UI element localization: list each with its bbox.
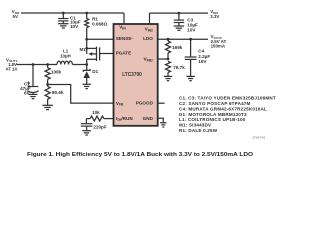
svg-text:220pF: 220pF (93, 124, 106, 129)
svg-text:GND: GND (143, 116, 154, 121)
diode D1 MBRM120T3 (Schottky) (83, 63, 99, 89)
svg-text:LTC3700: LTC3700 (122, 72, 142, 78)
svg-text:169k: 169k (172, 45, 183, 50)
svg-text:16V: 16V (198, 59, 207, 64)
svg-text:6V: 6V (24, 90, 31, 95)
wire: VIN1 top rail (21, 12, 124, 14)
wire: VOUT1 rail (17, 64, 58, 66)
svg-text:100k: 100k (51, 69, 62, 74)
svg-text:10V: 10V (70, 24, 79, 29)
svg-text:Figure 1. High Efficiency 5V t: Figure 1. High Efficiency 5V to 1.8V/1A … (27, 152, 254, 158)
svg-text:10V: 10V (187, 27, 196, 32)
svg-text:3.3V: 3.3V (210, 14, 219, 19)
resistor 100k (VFB divider top) (45, 63, 61, 84)
svg-text:AT 1A: AT 1A (6, 67, 18, 72)
inductor L1 10µH (57, 48, 72, 64)
resistor 78.7k (LDO divider bottom) (164, 61, 185, 80)
resistor 169k (LDO divider top) (166, 38, 183, 59)
wire: LDO output rail (158, 38, 208, 40)
svg-text:L1: COILTRONICS UP1B-100: L1: COILTRONICS UP1B-100 (179, 117, 246, 122)
capacitor C1 (58, 12, 81, 29)
notes: component table (179, 95, 276, 133)
svg-text:C1, C3: TAIYO YUDEN EMK325BJ10: C1, C3: TAIYO YUDEN EMK325BJ106MNT (179, 95, 276, 100)
svg-text:LDO: LDO (143, 36, 153, 41)
svg-text:5V: 5V (13, 14, 18, 19)
node VFB junction (46, 83, 49, 86)
resistor R1 0.068Ω (85, 12, 108, 40)
svg-text:M1: M1 (80, 47, 87, 52)
resistor 10k (ITH compensation) (86, 110, 113, 121)
svg-text:PGATE: PGATE (116, 51, 131, 56)
svg-text:D1: MOTOROLA MBRM120T3: D1: MOTOROLA MBRM120T3 (179, 112, 247, 117)
wire: VIN2 riser (149, 13, 151, 24)
svg-text:D1: D1 (92, 69, 98, 74)
svg-text:R1: DALE 0.25W: R1: DALE 0.25W (179, 128, 218, 133)
transistor M1 Si3443DV (PMOS) (80, 39, 100, 64)
svg-text:78.7k: 78.7k (173, 65, 185, 70)
wire: SENSE- net to chip (85, 38, 113, 41)
op-amp U1 LTC3700 chip body (114, 24, 158, 126)
wire: VFB to chip (48, 85, 114, 104)
wire: PGATE to chip (100, 53, 114, 55)
svg-text:C4: MURATA GRM42-6X7R225K016AL: C4: MURATA GRM42-6X7R225K016AL (179, 106, 267, 111)
svg-text:3700 F01: 3700 F01 (252, 136, 265, 140)
wire: PGOOD stub (158, 102, 165, 104)
capacitor 220pF (81, 119, 107, 135)
wire: switch node (72, 64, 86, 66)
svg-text:C2: SANYO POSCAP 6TPA47M: C2: SANYO POSCAP 6TPA47M (179, 101, 251, 106)
capacitor C4 2.2µF (185, 38, 211, 81)
capacitor C2 47µF (polarized) (20, 63, 38, 99)
resistor 80.6k (VFB divider bottom) (42, 85, 64, 110)
wire: VIN2 rail (150, 12, 209, 14)
svg-text:C4: C4 (198, 49, 204, 54)
wire: VFB2 to chip (158, 58, 170, 61)
wire: VIN riser into chip (123, 13, 125, 24)
svg-text:PGOOD: PGOOD (136, 101, 154, 106)
svg-text:80.6k: 80.6k (52, 90, 64, 95)
svg-text:SENSE–: SENSE– (116, 36, 134, 41)
ground: GND pin (158, 118, 167, 127)
svg-text:10µH: 10µH (60, 54, 71, 59)
svg-text:0.068Ω: 0.068Ω (92, 21, 107, 26)
svg-text:M1: SI3443DV: M1: SI3443DV (179, 123, 212, 128)
svg-text:150mA: 150mA (211, 43, 226, 48)
svg-text:10k: 10k (92, 110, 100, 115)
capacitor C3 (174, 12, 198, 33)
